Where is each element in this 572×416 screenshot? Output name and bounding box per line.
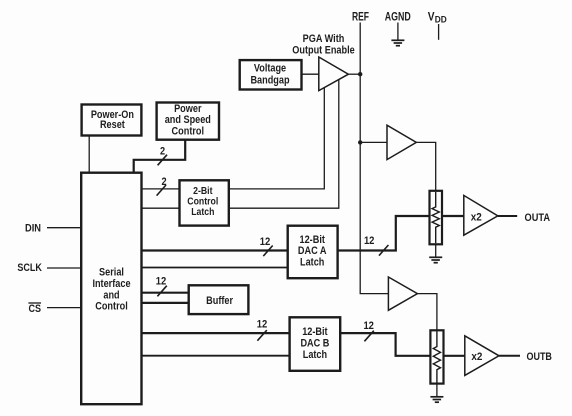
pin CS (active low) xyxy=(28,303,41,315)
block Voltage Bandgap xyxy=(240,60,302,89)
svg-text:12: 12 xyxy=(363,320,374,332)
svg-text:and Speed: and Speed xyxy=(165,114,211,126)
svg-text:12: 12 xyxy=(257,319,268,331)
wire op-amp A to resistor string A xyxy=(416,142,435,191)
wire REF to op-amp A xyxy=(360,141,387,143)
bus width label 12 (DAC B in) xyxy=(257,319,268,331)
svg-text:DIN: DIN xyxy=(25,222,41,234)
resistor string A R1 xyxy=(430,191,443,245)
svg-text:V: V xyxy=(428,10,435,24)
svg-text:Voltage: Voltage xyxy=(254,63,286,75)
svg-text:DAC A: DAC A xyxy=(298,245,327,257)
bus width label 2 (latch) xyxy=(161,176,166,188)
wire serial to buffer b xyxy=(142,302,189,304)
bus Power/Speed to serial xyxy=(134,140,186,173)
bus width label 12 (DAC B out) xyxy=(363,320,374,332)
op-amp PGA U1 xyxy=(319,57,349,91)
bus DAC B latch to resistor string xyxy=(340,333,430,356)
svg-text:12: 12 xyxy=(156,276,167,288)
wire latch to PGA gain xyxy=(229,88,324,189)
ground B xyxy=(430,397,443,402)
wire SCLK xyxy=(47,267,81,269)
pin VDD xyxy=(428,10,447,26)
block Buffer xyxy=(189,285,249,314)
bus DAC A latch to resistor string xyxy=(338,216,430,251)
wire resistor A to ground xyxy=(435,244,437,257)
svg-text:12: 12 xyxy=(364,235,375,247)
svg-text:x2: x2 xyxy=(471,351,482,363)
wire resistor B to ground xyxy=(436,384,438,397)
net REF wire xyxy=(360,23,388,294)
ground A xyxy=(429,257,442,262)
bus slash 12 (DAC A in) xyxy=(263,246,272,257)
op-amp A buffer U2 xyxy=(387,125,416,159)
wire serial to DAC A latch ctrl xyxy=(142,267,288,269)
wire VDD stub xyxy=(438,24,440,40)
svg-text:CS: CS xyxy=(28,303,41,315)
bus slash 12 (DAC B in) xyxy=(257,330,266,341)
svg-text:OUTB: OUTB xyxy=(526,351,552,363)
wire OUTB xyxy=(499,355,520,357)
bus slash 12 (DAC A out) xyxy=(379,245,388,256)
svg-text:PGA With: PGA With xyxy=(303,33,345,45)
wire serial to control latch b xyxy=(142,207,180,209)
svg-text:2: 2 xyxy=(160,145,165,157)
op-amp B buffer U4 xyxy=(388,277,417,310)
bus slash 12 (buffer) xyxy=(157,286,166,297)
svg-text:Power: Power xyxy=(174,103,202,115)
svg-text:DD: DD xyxy=(435,14,447,25)
svg-text:12-Bit: 12-Bit xyxy=(302,326,328,338)
bus serial to control latch xyxy=(142,188,180,190)
svg-text:x2: x2 xyxy=(471,211,482,223)
pin REF xyxy=(352,10,369,24)
wire resistor A to x2 A xyxy=(442,215,464,217)
block 12-Bit DAC A Latch xyxy=(288,226,338,279)
resistor string B R2 xyxy=(430,330,443,383)
svg-text:SCLK: SCLK xyxy=(17,262,42,274)
bus width label 12 (DAC A out) xyxy=(364,235,375,247)
pin OUTB xyxy=(526,351,552,363)
svg-text:Buffer: Buffer xyxy=(206,295,233,307)
bus slash 2 (power) xyxy=(158,155,167,166)
label PGA With Output Enable xyxy=(292,33,354,56)
wire bandgap to PGA xyxy=(302,73,319,75)
block Power and Speed Control xyxy=(157,103,219,140)
block 2-Bit Control Latch xyxy=(180,180,229,225)
pin OUTA xyxy=(525,212,551,224)
svg-text:REF: REF xyxy=(352,10,369,24)
node PGA output junction xyxy=(358,72,362,76)
svg-text:DAC B: DAC B xyxy=(300,337,329,349)
pin AGND xyxy=(385,10,411,24)
svg-text:Control: Control xyxy=(172,125,205,137)
svg-text:Control: Control xyxy=(95,301,128,313)
bus serial to DAC B latch xyxy=(142,332,290,334)
wire POR to serial xyxy=(88,136,90,173)
svg-text:Reset: Reset xyxy=(100,119,125,131)
svg-text:AGND: AGND xyxy=(385,10,411,24)
op-amp x2 B U5 xyxy=(465,336,499,376)
svg-text:Bandgap: Bandgap xyxy=(250,75,289,87)
svg-text:Interface: Interface xyxy=(92,278,130,290)
bus slash 12 (DAC B out) xyxy=(364,331,373,342)
bus slash 2 (latch) xyxy=(157,185,166,196)
svg-text:Latch: Latch xyxy=(300,256,325,268)
wire latch to PGA enable xyxy=(229,80,339,209)
svg-text:Latch: Latch xyxy=(191,206,214,218)
wire DIN xyxy=(47,227,81,229)
block Power-On Reset xyxy=(82,105,142,136)
pin SCLK xyxy=(17,262,42,274)
pin DIN xyxy=(25,222,41,234)
svg-text:OUTA: OUTA xyxy=(525,212,551,224)
node REF to op-amp A junction xyxy=(358,140,362,144)
ground AGND xyxy=(391,40,404,45)
svg-text:12: 12 xyxy=(260,236,271,248)
bus width label 2 (power) xyxy=(160,145,165,157)
block 12-Bit DAC B Latch xyxy=(290,317,341,371)
bus width label 12 (buffer) xyxy=(156,276,167,288)
wire PGA output xyxy=(348,73,360,75)
bus serial to buffer xyxy=(142,292,189,294)
wire AGND stub xyxy=(397,23,399,40)
svg-text:2: 2 xyxy=(161,176,166,188)
bus serial to DAC A latch xyxy=(142,249,288,251)
op-amp x2 A U3 xyxy=(464,195,498,235)
wire op-amp B to resistor string B xyxy=(417,294,437,332)
wire OUTA xyxy=(498,215,517,217)
block Serial Interface and Control xyxy=(81,173,141,405)
svg-text:Output Enable: Output Enable xyxy=(292,44,354,56)
wire serial to DAC B latch ctrl xyxy=(142,355,290,357)
bus width label 12 (DAC A in) xyxy=(260,236,271,248)
svg-text:Latch: Latch xyxy=(303,349,328,361)
wire CS xyxy=(47,307,81,309)
wire resistor B to x2 B xyxy=(444,355,465,357)
svg-text:Serial: Serial xyxy=(99,267,124,279)
